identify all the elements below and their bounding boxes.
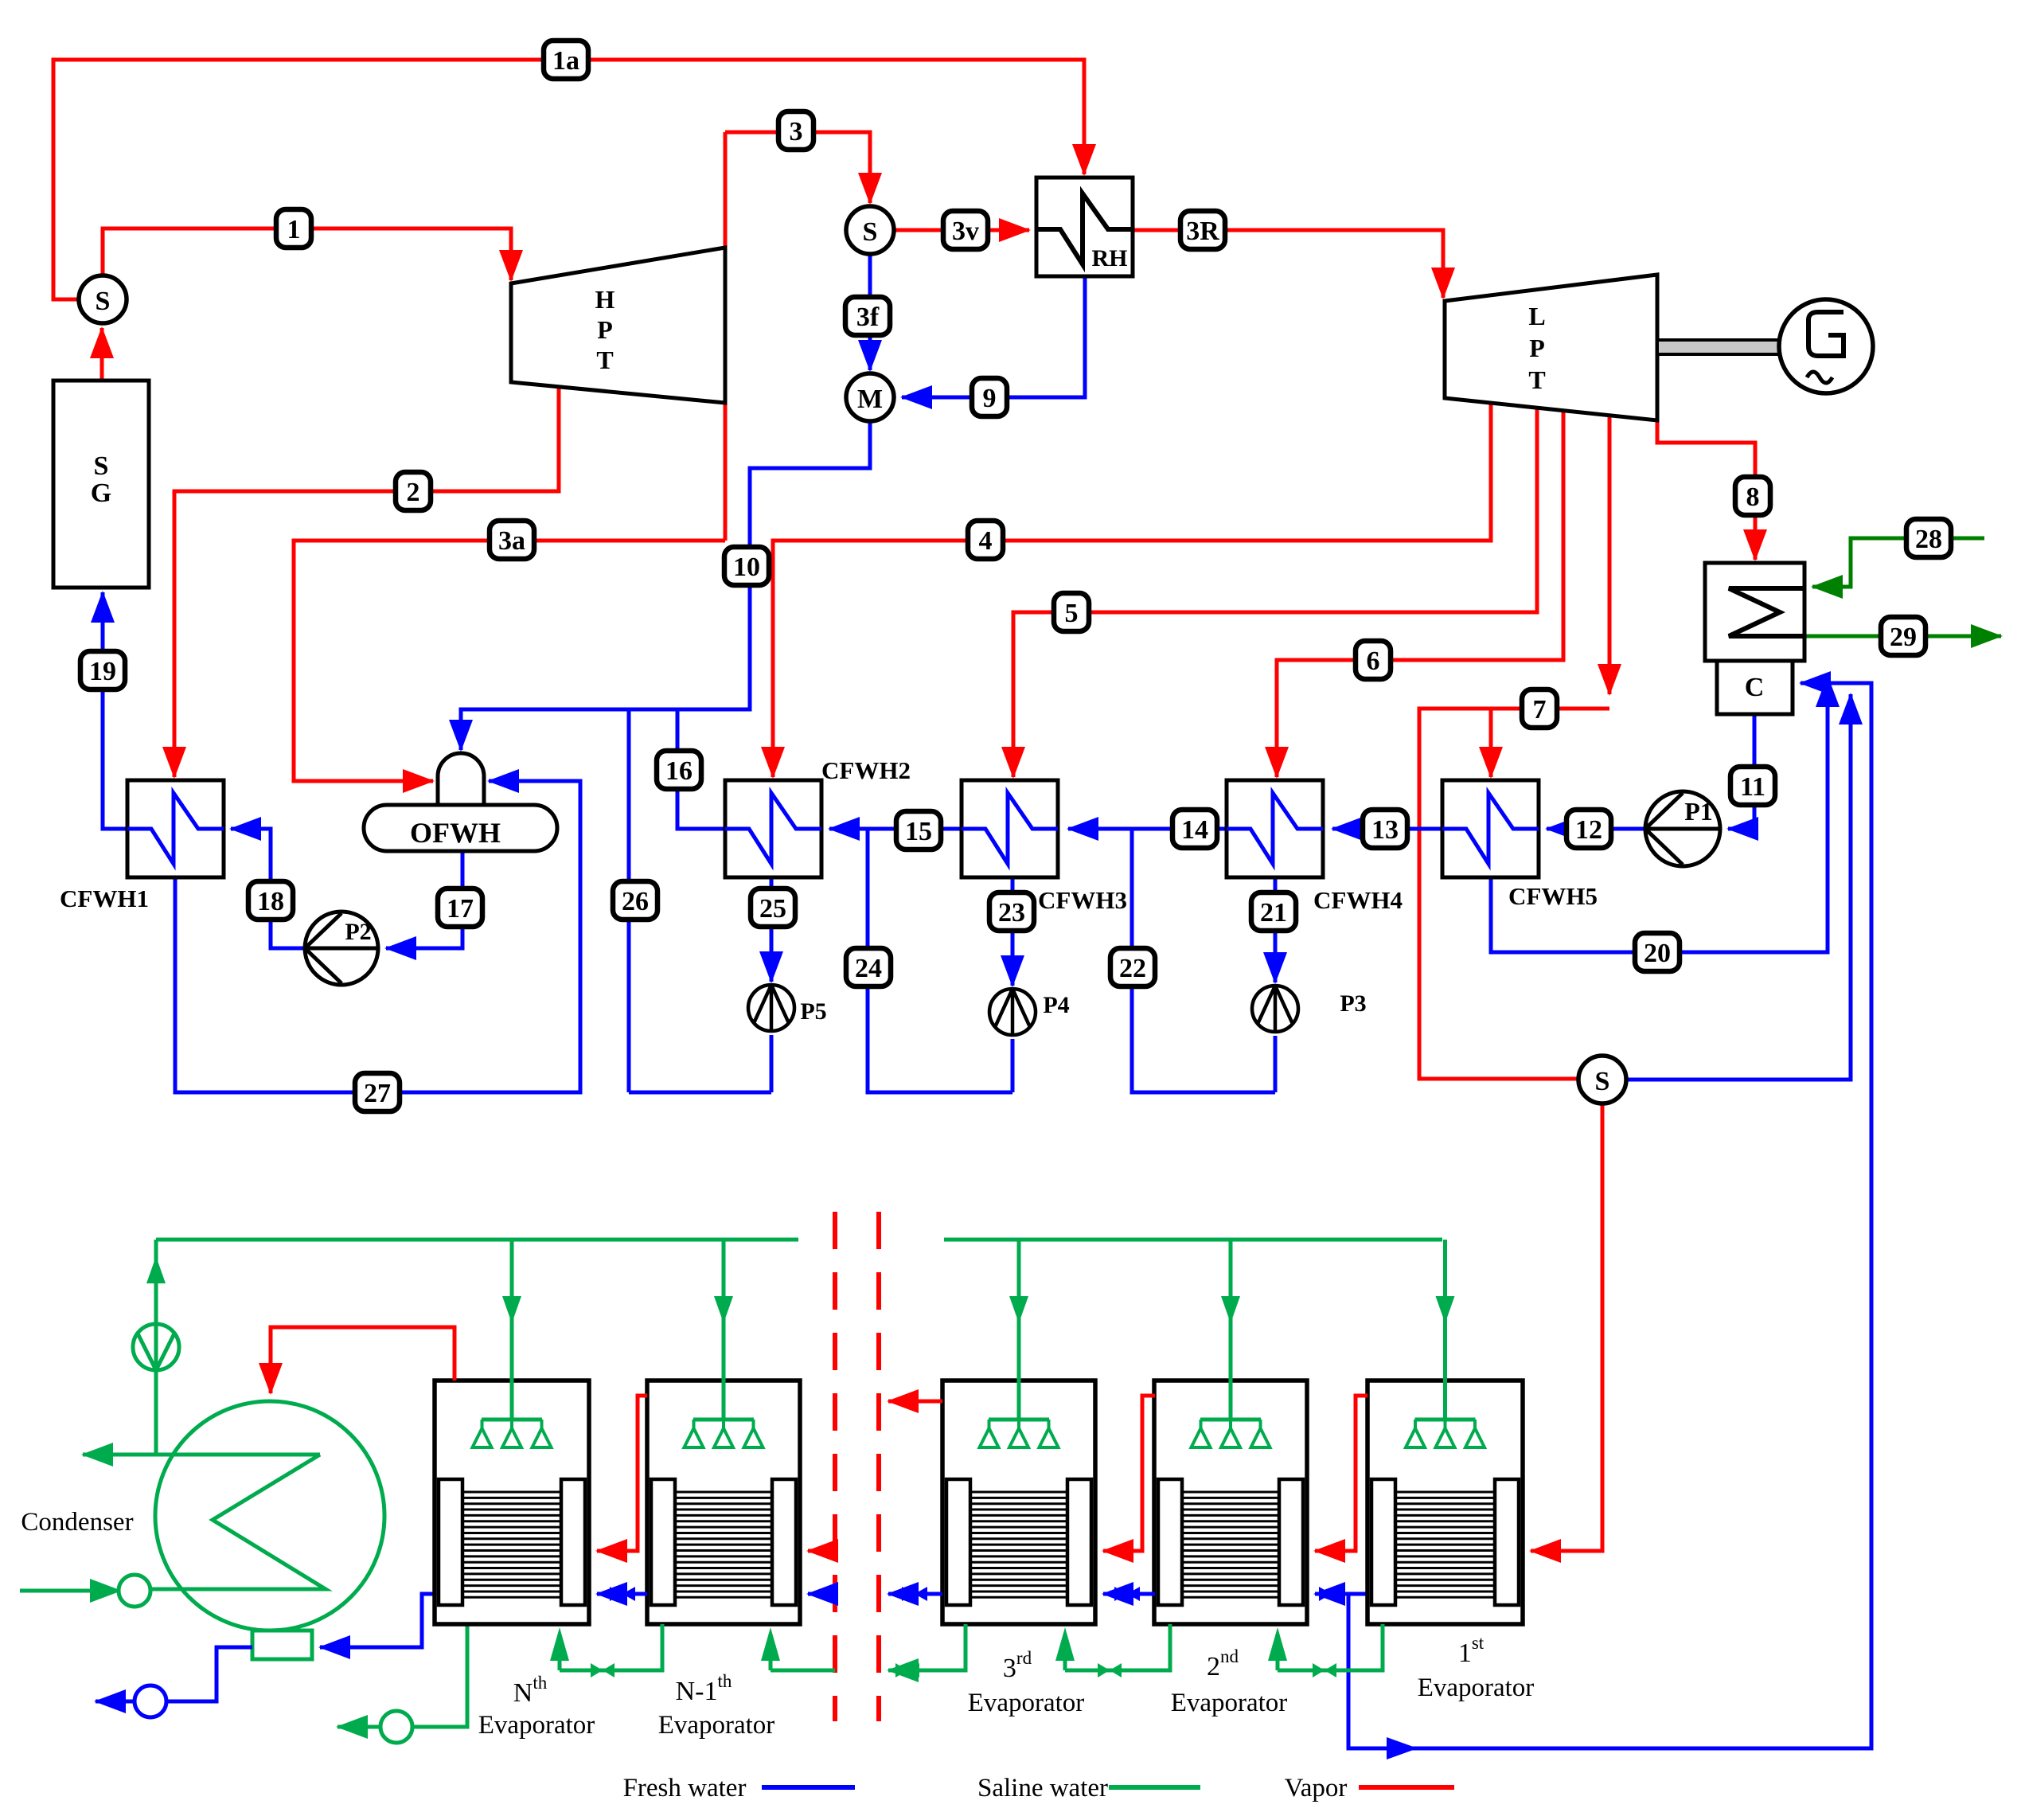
distillate break to N-1th evaporator xyxy=(808,1592,835,1596)
distillate 1st to 2nd evaporator xyxy=(1315,1592,1348,1596)
vapor 2nd to 3rd evaporator xyxy=(1103,1396,1155,1551)
label 11 xyxy=(1730,767,1775,805)
pump P2 xyxy=(305,912,378,985)
arrow distillate return xyxy=(1387,1737,1418,1759)
wire 10: mixer M to OFWH xyxy=(461,421,870,750)
mixer M xyxy=(846,373,894,421)
brine 2nd to 3rd evaporator xyxy=(1065,1624,1170,1670)
svg-text:Evaporator: Evaporator xyxy=(968,1689,1085,1717)
svg-text:21: 21 xyxy=(1260,898,1287,928)
svg-text:3rd: 3rd xyxy=(1003,1648,1032,1683)
wire 9: RH drain to mixer M xyxy=(902,276,1085,397)
wire 11: condenser C to P1 xyxy=(1728,714,1754,829)
wire 3a: to OFWH xyxy=(294,541,725,781)
svg-text:25: 25 xyxy=(759,894,786,924)
wire 27: CFWH1 drain to OFWH xyxy=(175,781,580,1092)
label 21 xyxy=(1251,892,1296,931)
svg-text:6: 6 xyxy=(1367,646,1380,676)
label 29 xyxy=(1881,617,1925,655)
dashed break line right xyxy=(876,1212,881,1721)
svg-text:Fresh water: Fresh water xyxy=(623,1774,747,1802)
wire 3R: RH to LPT inlet xyxy=(1133,230,1443,298)
label 3 xyxy=(778,111,813,150)
svg-text:OFWH: OFWH xyxy=(410,817,501,849)
svg-text:S: S xyxy=(863,217,878,247)
label 6 xyxy=(1356,641,1391,679)
product pump xyxy=(135,1685,166,1717)
open feedwater heater OFWH xyxy=(438,753,484,805)
vapor N-1th to Nth evaporator xyxy=(597,1396,647,1551)
spray feed into 3rd evaporator xyxy=(1017,1240,1021,1420)
wire 20: CFWH5 drain to condenser C xyxy=(1491,677,1828,952)
svg-text:3f: 3f xyxy=(856,303,880,332)
svg-text:T: T xyxy=(596,346,613,374)
wire 19: CFWH1 to SG xyxy=(103,592,127,829)
svg-text:8: 8 xyxy=(1746,482,1760,512)
wire 3f: splitter S2 to mixer M xyxy=(868,254,872,370)
svg-text:20: 20 xyxy=(1644,939,1671,968)
blowdown pump xyxy=(380,1711,412,1743)
vapor 3rd evaporator to break xyxy=(888,1400,942,1404)
wire 6: LPT extraction to CFWH4 xyxy=(1277,411,1563,777)
svg-text:29: 29 xyxy=(1890,623,1917,652)
heater CFWH3 xyxy=(962,780,1058,877)
label 3a xyxy=(490,521,534,559)
svg-text:P2: P2 xyxy=(345,919,371,945)
svg-text:23: 23 xyxy=(998,898,1025,928)
evaporator 2nd vessel xyxy=(1154,1381,1307,1624)
shaft xyxy=(1657,340,1780,354)
wire 28: saline water inlet to condenser xyxy=(1812,538,1984,587)
svg-text:28: 28 xyxy=(1915,525,1942,554)
label 24 xyxy=(846,948,891,986)
svg-text:16: 16 xyxy=(665,756,693,786)
wire 13: CFWH5 to CFWH4 xyxy=(1332,827,1442,831)
wire 25: CFWH2 drain to P5 xyxy=(770,877,774,982)
spray feed into 2nd evaporator xyxy=(1229,1240,1233,1420)
svg-text:22: 22 xyxy=(1119,954,1146,983)
svg-text:N-1th: N-1th xyxy=(676,1671,732,1706)
svg-text:2: 2 xyxy=(407,478,420,507)
heater CFWH4 xyxy=(1227,780,1323,877)
svg-text:P: P xyxy=(1529,334,1545,362)
label 7 xyxy=(1522,689,1557,728)
LPT turbine xyxy=(1445,275,1657,420)
label 3R xyxy=(1180,211,1225,249)
svg-text:RH: RH xyxy=(1092,245,1128,271)
svg-text:T: T xyxy=(1528,365,1545,394)
label 3f xyxy=(845,297,890,335)
condenser (steam) xyxy=(1705,563,1804,661)
svg-text:3a: 3a xyxy=(498,526,525,556)
wire 3: HPT outlet to splitter S2 xyxy=(725,132,870,541)
svg-text:1a: 1a xyxy=(552,46,579,76)
wire distillate return to condenser C xyxy=(1348,683,1871,1748)
svg-text:P1: P1 xyxy=(1684,797,1713,826)
label 13 xyxy=(1363,810,1407,848)
distillate from Nth evaporator xyxy=(320,1594,435,1647)
svg-text:P4: P4 xyxy=(1043,992,1069,1018)
wire 21: CFWH4 drain to P3 xyxy=(1274,877,1278,982)
MED condenser shell xyxy=(155,1401,384,1631)
label 14 xyxy=(1172,810,1217,848)
label 12 xyxy=(1566,810,1611,848)
pump P3 xyxy=(1252,986,1298,1032)
svg-text:C: C xyxy=(1745,673,1765,702)
label 19 xyxy=(80,651,125,689)
label 28 xyxy=(1906,519,1951,557)
product water out arrow xyxy=(96,1700,135,1704)
reheater RH xyxy=(1036,178,1133,276)
brine 3rd evaporator to break xyxy=(888,1624,966,1670)
svg-text:G: G xyxy=(91,478,111,508)
svg-text:1: 1 xyxy=(287,215,301,244)
distillate N-1th to Nth evaporator xyxy=(597,1592,647,1596)
svg-text:26: 26 xyxy=(622,887,649,916)
svg-text:15: 15 xyxy=(905,817,932,846)
brine 1st to 2nd evaporator xyxy=(1278,1624,1383,1670)
label 10 xyxy=(724,547,769,585)
seawater intake arrow xyxy=(20,1589,120,1593)
pump P5 xyxy=(748,985,794,1031)
evaporator Nth vessel xyxy=(435,1381,589,1624)
label 1a xyxy=(544,41,588,79)
svg-text:H: H xyxy=(595,285,615,314)
distillate 2nd to 3rd evaporator xyxy=(1103,1592,1155,1596)
svg-text:P5: P5 xyxy=(800,998,826,1025)
label 16 xyxy=(657,751,701,789)
distillate 3rd evaporator to break xyxy=(888,1592,942,1596)
svg-text:CFWH2: CFWH2 xyxy=(821,756,911,784)
svg-text:7: 7 xyxy=(1533,695,1547,724)
heater CFWH2 xyxy=(725,780,821,877)
label 9 xyxy=(972,378,1007,416)
label 25 xyxy=(751,889,795,927)
wire 17: OFWH to P2 xyxy=(386,851,462,948)
pump P4 xyxy=(989,989,1036,1035)
svg-text:Evaporator: Evaporator xyxy=(478,1711,595,1740)
distillate box under MED condenser xyxy=(252,1631,312,1659)
wire 23: CFWH3 drain to P4 xyxy=(1011,877,1015,986)
label 8 xyxy=(1735,477,1770,515)
svg-text:L: L xyxy=(1528,302,1545,330)
label 3v xyxy=(943,211,988,249)
svg-text:Evaporator: Evaporator xyxy=(1418,1674,1535,1702)
wire 14: CFWH4 to CFWH3 xyxy=(1068,827,1227,831)
feed pump xyxy=(133,1324,179,1370)
cooling water reject arrow xyxy=(83,1453,156,1457)
svg-text:3v: 3v xyxy=(952,217,979,246)
wire S3 splitter to 1st evaporator xyxy=(1531,1103,1602,1551)
svg-text:S: S xyxy=(1595,1067,1610,1096)
svg-text:Nth: Nth xyxy=(513,1673,548,1708)
label 17 xyxy=(438,889,482,927)
svg-text:S: S xyxy=(94,451,109,481)
svg-text:10: 10 xyxy=(733,553,760,582)
wire 22: drain tee to P3 xyxy=(1132,829,1275,1092)
svg-text:18: 18 xyxy=(257,887,284,916)
svg-text:2nd: 2nd xyxy=(1207,1646,1239,1681)
svg-text:Evaporator: Evaporator xyxy=(658,1711,775,1740)
svg-text:12: 12 xyxy=(1575,815,1602,845)
generator G xyxy=(1779,299,1873,393)
svg-text:3: 3 xyxy=(790,117,803,146)
vapor 1st to 2nd evaporator xyxy=(1315,1396,1367,1551)
wire S3 to condenser C xyxy=(1626,694,1851,1080)
wire 24: drain tee to P4 xyxy=(868,829,1012,1092)
riser to feed header xyxy=(154,1370,158,1455)
brine N-1th to Nth evaporator xyxy=(560,1624,662,1670)
svg-text:19: 19 xyxy=(89,657,116,686)
evaporator 1st vessel xyxy=(1367,1381,1523,1624)
svg-text:Evaporator: Evaporator xyxy=(1171,1689,1288,1717)
label 22 xyxy=(1110,948,1155,986)
vapor Nth evaporator to MED condenser xyxy=(271,1327,455,1393)
label 4 xyxy=(968,521,1003,559)
splitter S3 xyxy=(1578,1056,1626,1103)
label 1 xyxy=(276,209,311,248)
wire 18: P2 to CFWH1 xyxy=(231,829,305,948)
wire 29: saline water outlet xyxy=(1804,635,2001,639)
wire 3v: splitter S2 to RH xyxy=(893,228,1029,232)
vapor break to N-1th evaporator xyxy=(808,1549,835,1553)
svg-text:S: S xyxy=(96,287,111,316)
svg-text:P3: P3 xyxy=(1340,990,1366,1017)
svg-text:Condenser: Condenser xyxy=(21,1508,133,1537)
brine blowdown from Nth xyxy=(412,1624,467,1727)
label 27 xyxy=(355,1073,400,1111)
wire 7: LPT extraction xyxy=(1608,415,1612,694)
svg-text:11: 11 xyxy=(1740,772,1765,802)
intake pump xyxy=(119,1575,150,1607)
splitter S1 xyxy=(79,275,127,323)
label 23 xyxy=(989,892,1034,931)
wire 1a: S splitter to reheater RH xyxy=(53,60,1084,299)
dashed break line left xyxy=(833,1212,837,1721)
MED condenser tube zigzag xyxy=(150,1455,326,1589)
wire 2: HPT exhaust to CFWH1 xyxy=(174,387,559,777)
svg-text:1st: 1st xyxy=(1458,1633,1485,1668)
spray feed into 1st evaporator xyxy=(1443,1240,1447,1420)
wire 12: P1 to CFWH5 xyxy=(1547,827,1645,831)
wire 1: splitter S to HPT inlet xyxy=(103,228,511,280)
svg-text:4: 4 xyxy=(979,526,993,556)
label 20 xyxy=(1635,933,1680,971)
svg-text:9: 9 xyxy=(983,384,997,413)
spray feed into Nth evaporator xyxy=(510,1240,514,1420)
svg-text:27: 27 xyxy=(364,1079,391,1108)
svg-text:14: 14 xyxy=(1181,815,1208,845)
label 18 xyxy=(248,881,293,920)
svg-text:M: M xyxy=(857,385,883,414)
svg-text:17: 17 xyxy=(447,894,474,924)
label 26 xyxy=(613,881,657,920)
spray feed into N-1th evaporator xyxy=(722,1240,726,1420)
brine blowdown out arrow xyxy=(337,1725,380,1729)
svg-text:24: 24 xyxy=(855,954,882,983)
wire 4: LPT extraction to CFWH2 xyxy=(773,403,1491,777)
svg-text:13: 13 xyxy=(1371,815,1399,845)
condenser hotwell C xyxy=(1717,661,1793,714)
wire P5 drain header xyxy=(629,1091,771,1095)
heater CFWH5 xyxy=(1442,780,1539,877)
svg-text:Vapor: Vapor xyxy=(1285,1774,1348,1802)
label 15 xyxy=(896,811,941,849)
saline feed header xyxy=(156,1238,798,1242)
pump P1 xyxy=(1645,791,1720,866)
brine break to N-1th evaporator xyxy=(771,1669,835,1673)
svg-text:P: P xyxy=(597,315,613,344)
wire 16: CFWH2 outlet to OFWH line xyxy=(677,709,725,829)
wire 15: CFWH3 to CFWH2 xyxy=(829,827,962,831)
svg-text:CFWH4: CFWH4 xyxy=(1313,886,1403,914)
svg-text:5: 5 xyxy=(1065,599,1079,628)
steam generator SG xyxy=(53,381,149,588)
svg-text:CFWH3: CFWH3 xyxy=(1038,886,1127,914)
svg-text:CFWH5: CFWH5 xyxy=(1508,882,1598,910)
arrow up to header xyxy=(146,1256,166,1283)
HPT turbine xyxy=(511,248,725,403)
wire SG to splitter S xyxy=(100,328,104,381)
wire 7 branch to CFWH5 xyxy=(1489,709,1493,777)
svg-text:Saline water: Saline water xyxy=(977,1774,1108,1802)
label 2 xyxy=(396,472,431,510)
svg-text:CFWH1: CFWH1 xyxy=(60,885,149,912)
svg-text:3R: 3R xyxy=(1186,217,1219,246)
wire 5: LPT extraction to CFWH3 xyxy=(1013,408,1537,777)
heater CFWH1 xyxy=(127,780,224,877)
product water line xyxy=(166,1647,252,1701)
wire 26: P5 discharge to OFWH line xyxy=(627,709,631,1092)
wire 8: LPT exhaust to condenser xyxy=(1657,420,1755,560)
splitter S2 xyxy=(846,206,894,254)
evaporator N-1th vessel xyxy=(647,1381,800,1624)
evaporator 3rd vessel xyxy=(942,1381,1095,1624)
label 5 xyxy=(1054,593,1089,631)
